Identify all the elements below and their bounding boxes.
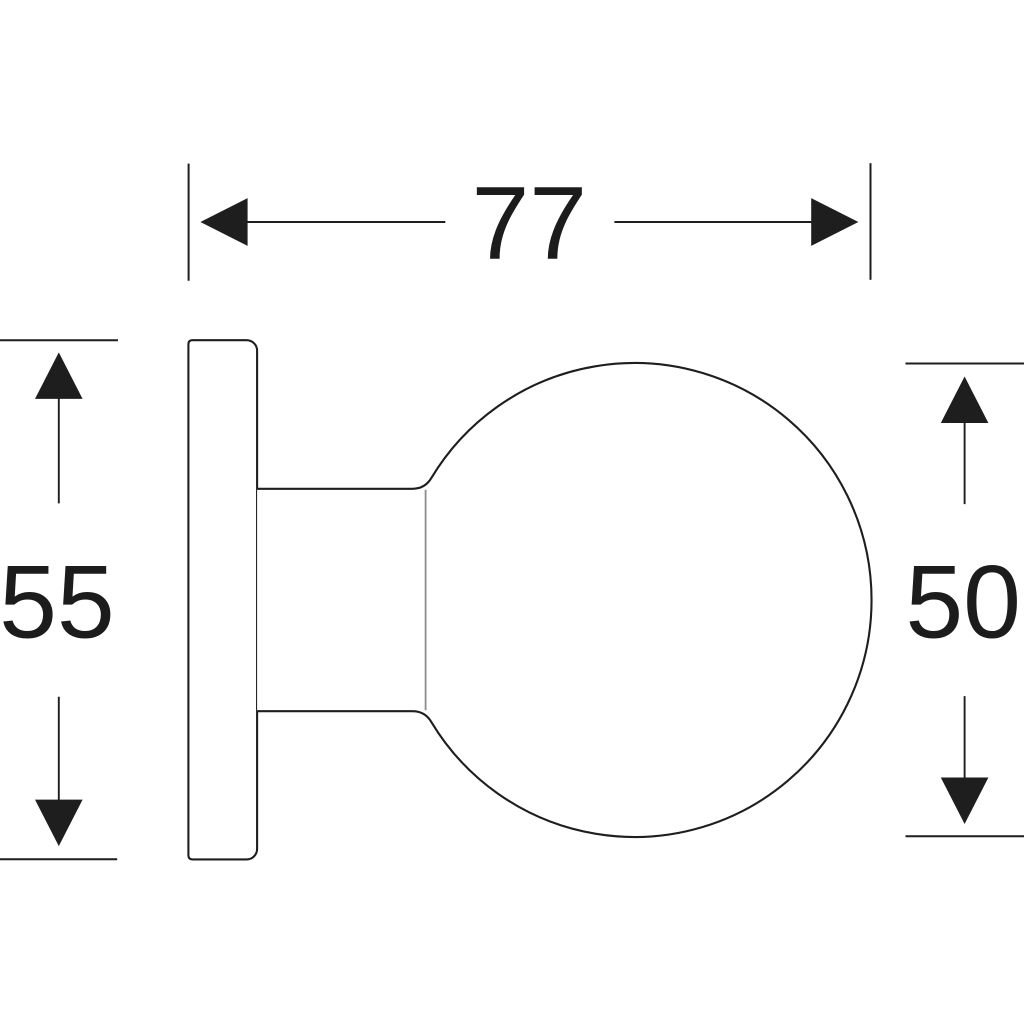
- neck/ball junction edge line: [425, 490, 427, 711]
- dimension 50: line lower segment: [964, 696, 966, 779]
- dimension 55: top extension line: [0, 339, 118, 341]
- dimension 77: right extension line: [870, 163, 872, 280]
- dimension 77: right arrowhead: [811, 198, 858, 246]
- dimension 50: down arrowhead: [941, 778, 989, 825]
- knob ball and neck outline: [257, 363, 871, 837]
- dimension 77: line left segment: [246, 221, 445, 223]
- dimension 55: up arrowhead: [35, 352, 83, 399]
- dimension 50: up arrowhead: [941, 377, 989, 424]
- dimension 55: bottom extension line: [0, 858, 117, 860]
- svg-text:77: 77: [471, 166, 587, 282]
- dimension 77: left extension line: [188, 164, 190, 281]
- svg-text:50: 50: [905, 545, 1021, 661]
- dimension 55: down arrowhead: [35, 800, 83, 847]
- dimension 50: line upper segment: [964, 422, 966, 505]
- svg-text:55: 55: [0, 545, 115, 661]
- rose plate (side view rounded rectangle): [188, 340, 257, 859]
- dimension 50: bottom extension line: [906, 835, 1024, 837]
- dimension 55: line upper segment: [58, 398, 60, 504]
- dimension 77: left arrowhead: [200, 198, 247, 246]
- dimension 50: top extension line: [906, 363, 1024, 365]
- dimension 55: line lower segment: [58, 697, 60, 801]
- dimension 77: line right segment: [614, 221, 812, 223]
